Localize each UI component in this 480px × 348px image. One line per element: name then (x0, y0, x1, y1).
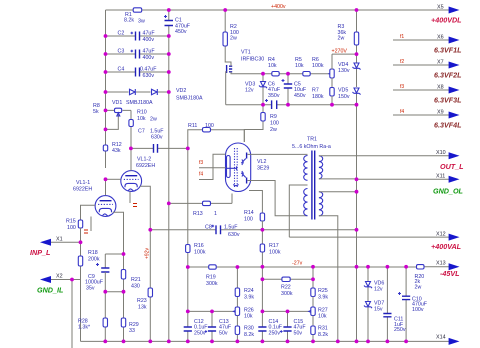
svg-text:R22: R22 (281, 285, 291, 291)
svg-text:12v: 12v (374, 287, 383, 293)
resistor R21 (123, 254, 125, 292)
svg-text:2w: 2w (415, 284, 422, 290)
capacitor C6 (272, 100, 277, 109)
connector X7 / f2 (393, 64, 449, 66)
svg-text:+92v: +92v (145, 248, 151, 259)
svg-text:3.9k: 3.9k (318, 294, 328, 300)
wire R14 stub (249, 191, 262, 214)
svg-text:50v: 50v (219, 330, 228, 336)
svg-text:R26: R26 (244, 307, 254, 313)
wire C8 row to gnd column (262, 229, 356, 231)
svg-text:R7: R7 (312, 88, 319, 94)
capacitor C12 (187, 311, 189, 341)
svg-text:X13: X13 (436, 260, 446, 266)
connector X13 (449, 263, 460, 270)
svg-text:R18: R18 (88, 250, 98, 256)
capacitor C2 (106, 35, 169, 37)
wire secondary bottom (319, 216, 338, 342)
resistor R19 / -27v rail (188, 266, 449, 268)
svg-text:X1: X1 (56, 237, 63, 243)
svg-text:R24: R24 (244, 288, 254, 294)
svg-text:R28: R28 (78, 318, 88, 324)
svg-text:50v: 50v (294, 330, 303, 336)
svg-text:12v: 12v (245, 88, 254, 94)
svg-text:VD3: VD3 (245, 81, 255, 87)
svg-text:6922EH: 6922EH (136, 163, 155, 169)
svg-text:100: 100 (205, 123, 214, 129)
resistor R14 (260, 213, 264, 221)
svg-text:VL1-1: VL1-1 (76, 180, 90, 186)
svg-text:f4: f4 (199, 171, 203, 177)
svg-text:R15: R15 (66, 219, 76, 225)
svg-text:X8: X8 (437, 84, 444, 90)
wire VL2 plate top (248, 153, 308, 155)
svg-text:13k: 13k (138, 304, 147, 310)
wire R9 riser into tube (243, 130, 245, 143)
svg-text:f1: f1 (400, 34, 404, 40)
wire VL2 plate bottom (248, 181, 308, 216)
wire secondary g2 top (319, 191, 357, 193)
svg-text:2w: 2w (338, 36, 345, 42)
svg-text:INP_L: INP_L (30, 248, 50, 257)
svg-text:f2: f2 (400, 59, 404, 65)
potentiometer R27 (309, 310, 313, 313)
svg-text:C3: C3 (118, 49, 125, 55)
node +270V (332, 53, 357, 55)
capacitor C7 (131, 147, 188, 149)
wire cathode node row (105, 254, 123, 268)
svg-text:100: 100 (270, 121, 279, 127)
svg-text:630v: 630v (228, 232, 240, 238)
wire gnd-in column (71, 280, 73, 348)
svg-text:10k: 10k (295, 63, 304, 69)
zener VD3 (262, 74, 264, 105)
svg-text:10k: 10k (268, 63, 277, 69)
connector X8 / f3 (393, 89, 449, 91)
resistor R29 (123, 292, 125, 342)
svg-text:180k: 180k (312, 94, 324, 100)
svg-text:3E29: 3E29 (257, 166, 269, 172)
resistor R28 (104, 292, 106, 342)
svg-text:R13: R13 (193, 211, 203, 217)
svg-text:450v: 450v (175, 29, 187, 35)
capacitor C14 (261, 311, 263, 341)
svg-text:f4: f4 (400, 109, 404, 115)
resistor R4 (272, 72, 279, 76)
capacitor C13 (211, 311, 213, 341)
wire bias row left (188, 310, 234, 312)
svg-text:100v: 100v (412, 307, 424, 313)
svg-text:C8: C8 (205, 225, 212, 231)
svg-text:X9: X9 (437, 109, 444, 115)
resistor R2 (225, 10, 231, 66)
transistor VT1 (226, 65, 228, 73)
svg-text:100: 100 (244, 216, 253, 222)
diode VD2 (152, 89, 158, 95)
svg-text:1.3k*: 1.3k* (78, 325, 90, 331)
resistor R30 (235, 326, 239, 335)
svg-text:SMBJ180A: SMBJ180A (176, 96, 203, 102)
svg-text:OUT_L: OUT_L (440, 162, 464, 171)
resistor R24 (236, 267, 238, 307)
svg-text:8.2k: 8.2k (318, 332, 328, 338)
svg-text:1.5uF: 1.5uF (224, 225, 238, 231)
capacitor C8 (150, 229, 262, 231)
wire mid node row (105, 291, 123, 293)
svg-text:5...6 kOhm Ra-a: 5...6 kOhm Ra-a (292, 144, 331, 150)
svg-text:+400VAL: +400VAL (431, 242, 461, 251)
svg-text:8.2k: 8.2k (244, 332, 254, 338)
resistor R10 (130, 110, 132, 148)
svg-text:VD1: VD1 (112, 100, 122, 106)
wire source row y73.7 (234, 73, 329, 75)
svg-text:X2: X2 (56, 274, 63, 280)
svg-text:GND_OL: GND_OL (433, 187, 463, 196)
svg-text:-45VL: -45VL (440, 269, 460, 278)
resistor R20 (417, 265, 425, 269)
resistor R16 (187, 148, 189, 267)
svg-text:250v: 250v (269, 330, 281, 336)
resistor R17 (261, 230, 263, 267)
resistor R18 (80, 242, 82, 279)
svg-text:400v: 400v (143, 37, 155, 43)
ground rail (81, 340, 450, 342)
svg-text:SMBJ180A: SMBJ180A (126, 100, 153, 106)
wire primary mid tap (289, 185, 307, 237)
svg-text:+270V: +270V (332, 49, 348, 55)
svg-text:6922EH: 6922EH (73, 186, 92, 192)
zener VD5 (356, 94, 358, 105)
svg-text:C4: C4 (118, 67, 125, 73)
svg-text:450v: 450v (294, 93, 306, 99)
svg-text:R29: R29 (129, 322, 139, 328)
svg-text:R27: R27 (318, 307, 328, 313)
svg-text:f3: f3 (199, 160, 203, 166)
svg-text:R10: R10 (137, 110, 147, 116)
svg-text:100: 100 (67, 225, 76, 231)
svg-text:47uF: 47uF (143, 31, 156, 37)
svg-text:1: 1 (214, 211, 217, 217)
svg-text:f3: f3 (400, 84, 404, 90)
svg-text:-27v: -27v (292, 261, 303, 267)
svg-text:5k: 5k (93, 109, 99, 115)
svg-text:6.3VF1L: 6.3VF1L (434, 46, 462, 55)
svg-text:300k: 300k (206, 281, 218, 287)
resistor R31 (311, 326, 315, 335)
svg-text:C7: C7 (138, 129, 145, 135)
zener VD6 (367, 267, 369, 302)
svg-text:R14: R14 (244, 210, 254, 216)
wire gate row y104.7 (226, 104, 357, 106)
svg-text:X7: X7 (437, 59, 444, 65)
svg-text:8.2k: 8.2k (124, 17, 134, 23)
potentiometer R8 (106, 110, 132, 129)
svg-text:6.3VF2L: 6.3VF2L (434, 71, 462, 80)
connector X12 (449, 234, 460, 241)
resistor R3 (356, 10, 358, 54)
wire left rail (105, 10, 107, 168)
svg-text:X14: X14 (436, 335, 446, 341)
svg-text:R16: R16 (194, 243, 204, 249)
svg-text:43k: 43k (112, 148, 121, 154)
svg-text:GND_IL: GND_IL (37, 286, 63, 295)
svg-text:VL2: VL2 (257, 159, 266, 165)
svg-text:35v: 35v (86, 285, 95, 291)
svg-text:X6: X6 (437, 34, 444, 40)
connector X5 (449, 7, 460, 14)
svg-text:X5: X5 (437, 4, 444, 10)
tube VL1-2 (121, 171, 142, 192)
capacitor C4 (106, 71, 169, 73)
wire bias row right (262, 310, 308, 312)
svg-text:400v: 400v (143, 55, 155, 61)
capacitor C11 (386, 267, 388, 342)
svg-text:VT1: VT1 (241, 50, 251, 56)
resistor R11 (188, 130, 245, 149)
svg-text:150v: 150v (338, 94, 350, 100)
svg-text:10k: 10k (137, 116, 146, 122)
svg-text:100k: 100k (269, 249, 281, 255)
wire X12 row (289, 236, 449, 238)
wire gnd column (356, 105, 358, 342)
svg-text:250v: 250v (194, 330, 206, 336)
resistor R15 (78, 220, 82, 228)
connector X6 / f1 (393, 39, 449, 41)
connector X14 (449, 338, 460, 345)
junction dots (167, 8, 171, 12)
connector X11 (449, 176, 460, 183)
svg-text:R31: R31 (318, 326, 328, 332)
heater stub VL1-1 (90, 217, 92, 232)
tube VL1-1 (95, 196, 116, 217)
connector X10 (449, 152, 460, 159)
wire VL1-1 plate riser (105, 179, 107, 195)
wire VL1-1 cathode (113, 212, 124, 254)
resistor R23 (149, 297, 151, 341)
svg-text:VD5: VD5 (338, 88, 348, 94)
svg-text:X10: X10 (436, 150, 446, 156)
wire VL1-1 grid (81, 205, 96, 220)
svg-text:VD7: VD7 (374, 300, 384, 306)
svg-text:X12: X12 (436, 231, 446, 237)
svg-text:TR1: TR1 (307, 137, 317, 143)
capacitor C10 (405, 267, 407, 342)
svg-text:R19: R19 (206, 275, 216, 281)
capacitor C9 (101, 268, 109, 272)
svg-text:X11: X11 (436, 174, 445, 180)
wire VL1-2 plate riser (130, 148, 132, 170)
svg-text:3w: 3w (138, 18, 145, 24)
resistor R13 (169, 202, 232, 204)
svg-text:33: 33 (129, 328, 135, 334)
svg-text:250v: 250v (394, 327, 406, 333)
svg-text:6.3VF4L: 6.3VF4L (434, 121, 462, 130)
svg-text:VD6: VD6 (374, 280, 384, 286)
svg-text:200k: 200k (88, 256, 100, 262)
wire VL1-2 cathode (140, 186, 150, 288)
svg-text:15v: 15v (374, 307, 383, 313)
heater stub VL1-2 (129, 192, 131, 203)
resistor R12 (105, 129, 107, 168)
svg-text:+400VDL: +400VDL (431, 16, 462, 25)
wire X11 (357, 178, 450, 180)
svg-text:300k: 300k (281, 291, 293, 297)
svg-text:10k: 10k (244, 314, 253, 320)
resistor R1 (133, 8, 142, 12)
wire R18 column to gnd (80, 280, 82, 342)
svg-text:2w: 2w (270, 127, 277, 133)
svg-text:2w: 2w (230, 36, 237, 42)
connector X9 / f4 (393, 114, 449, 116)
diode VD1 (106, 91, 169, 93)
svg-text:430: 430 (131, 283, 140, 289)
wire VL1-2 grid (106, 178, 121, 180)
resistor R5 (303, 72, 310, 76)
capacitor C5 (287, 74, 289, 105)
svg-text:130v: 130v (338, 68, 350, 74)
tube VL2 (226, 143, 251, 192)
zener VD7 (367, 307, 369, 341)
svg-text:0.47uF: 0.47uF (140, 67, 157, 73)
svg-text:VD2: VD2 (176, 88, 186, 94)
svg-text:350v: 350v (268, 93, 280, 99)
svg-text:R30: R30 (244, 326, 254, 332)
svg-text:630v: 630v (143, 73, 155, 79)
wire R16 column lower (187, 267, 189, 311)
svg-text:47uF: 47uF (143, 49, 156, 55)
svg-text:R21: R21 (131, 277, 141, 283)
resistor R22 (262, 267, 313, 312)
wire mid-left rail x168.8 (168, 36, 170, 341)
potentiometer R26 (234, 310, 238, 313)
svg-text:C2: C2 (118, 31, 125, 37)
capacitor C3 (106, 53, 169, 55)
connector X2 (46, 279, 81, 281)
svg-text:R25: R25 (318, 288, 328, 294)
connector X1 (46, 241, 81, 243)
zener VD4 (356, 54, 358, 87)
wire top rail +400v (106, 9, 450, 11)
resistor R7 (330, 88, 334, 97)
wire secondary g1 bottom (319, 178, 357, 180)
svg-text:R11: R11 (188, 123, 197, 129)
resistor R9 (244, 105, 263, 142)
wire VL2 cathode riser (231, 194, 233, 204)
svg-text:R23: R23 (137, 298, 147, 304)
svg-text:100k: 100k (312, 63, 324, 69)
svg-text:6.3VF3L: 6.3VF3L (434, 96, 462, 105)
wire secondary top / X10 (319, 155, 449, 157)
svg-text:VL1-2: VL1-2 (137, 157, 151, 163)
svg-text:10k: 10k (318, 314, 327, 320)
svg-text:2w: 2w (150, 117, 157, 123)
svg-text:IRFIBC30: IRFIBC30 (241, 57, 264, 63)
capacitor C15 (287, 311, 289, 341)
svg-text:630v: 630v (151, 134, 163, 140)
svg-text:R17: R17 (269, 243, 279, 249)
svg-text:+400v: +400v (271, 4, 286, 10)
capacitor C1 (168, 10, 170, 36)
svg-text:R9: R9 (270, 114, 277, 120)
potentiometer R6 (329, 72, 332, 75)
svg-text:3.9k: 3.9k (244, 294, 254, 300)
svg-text:100k: 100k (194, 249, 206, 255)
resistor R25 (311, 288, 315, 297)
